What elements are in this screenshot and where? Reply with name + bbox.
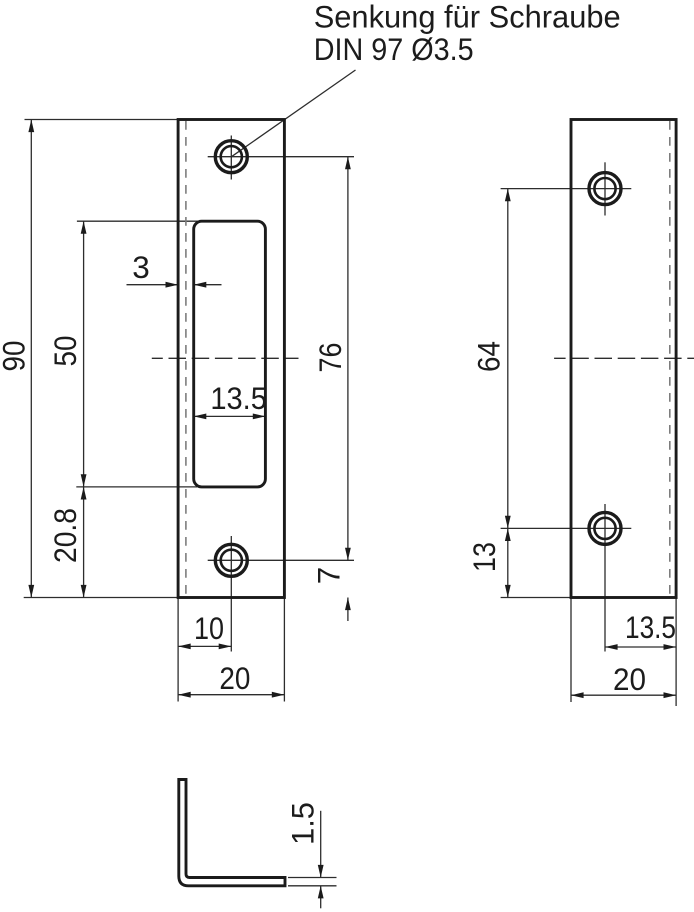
- angle profile cross-section: [179, 780, 285, 886]
- hole bottom-left outer: [215, 544, 247, 576]
- ext line angle top: [288, 877, 337, 879]
- dim line 13.5 slot: [194, 415, 266, 417]
- dim line 10: [178, 645, 231, 647]
- dim line 90: [30, 120, 32, 598]
- arrow 3 left pointing right: [166, 282, 179, 288]
- arrow 90 top up: [28, 120, 34, 133]
- hole bottom-right inner: [594, 518, 615, 539]
- arrow 1.5 top down: [318, 865, 324, 878]
- ext line slot top: [77, 220, 201, 222]
- arrow 20L left: [178, 692, 191, 698]
- leader line Senkung: [231, 70, 355, 157]
- svg-text:DIN 97 Ø3.5: DIN 97 Ø3.5: [314, 31, 474, 67]
- arrow 13 top up: [505, 528, 511, 541]
- centerline right view: [554, 357, 694, 359]
- arrow 20R left: [571, 692, 584, 698]
- svg-text:90: 90: [0, 341, 32, 372]
- dim line 20 right: [571, 694, 676, 696]
- arrow 10 right: [219, 644, 232, 650]
- dim line 20 left view: [178, 694, 284, 696]
- svg-text:Senkung für Schraube: Senkung für Schraube: [314, 0, 621, 34]
- dim 3 left tail: [127, 284, 179, 286]
- crosshair top hole horizontal / ext 76 top: [208, 156, 354, 158]
- arrow 64 top up: [505, 189, 511, 202]
- svg-text:20.8: 20.8: [47, 508, 83, 563]
- ext line slot bottom: [76, 486, 197, 488]
- hole top-left outer: [215, 141, 247, 173]
- centerline left view: [152, 357, 299, 359]
- crosshair right bottom hole vertical / ext 13.5: [604, 504, 606, 652]
- crosshair right top hole vertical: [604, 162, 606, 215]
- arrow 13.5R left: [605, 644, 618, 650]
- svg-text:13: 13: [466, 542, 502, 572]
- dim line 76: [347, 157, 349, 561]
- hidden bend line right view: [669, 121, 671, 596]
- hole top-right inner: [594, 178, 615, 199]
- ext line angle bottom: [288, 885, 337, 887]
- arrow 64 bottom down: [505, 516, 511, 529]
- dim 1.5 bottom tail: [320, 886, 322, 909]
- arrow 13 bottom down: [505, 585, 511, 598]
- svg-text:50: 50: [47, 336, 83, 367]
- crosshair top hole vertical: [230, 136, 232, 180]
- arrow 76 bottom down / 7 top: [345, 548, 351, 561]
- plate outline side view: [571, 120, 676, 598]
- svg-text:13.5: 13.5: [210, 380, 267, 416]
- THICK OUTLINES: [178, 120, 676, 886]
- arrow 3 right pointing left: [194, 282, 207, 288]
- svg-text:64: 64: [471, 341, 507, 372]
- svg-text:20: 20: [613, 661, 646, 697]
- arrow 50 bottom down: [81, 474, 87, 487]
- arrow 90 bottom down: [28, 585, 34, 598]
- arrow 20R right: [664, 692, 677, 698]
- ext line right bottom left view: [283, 598, 285, 702]
- ARROWHEADS: [28, 120, 676, 899]
- arrow 13.5 slot left: [194, 414, 207, 420]
- svg-text:76: 76: [312, 343, 348, 373]
- ext line right view bottom-right: [675, 598, 677, 707]
- arrow 7 bottom up: [345, 598, 351, 611]
- ext line left bottom: [177, 598, 179, 702]
- ext line top of 90: [25, 119, 179, 121]
- svg-text:3: 3: [132, 249, 150, 285]
- dim line 64 and 13: [507, 189, 509, 598]
- dim 3 right tail: [194, 284, 222, 286]
- hole top-right outer: [589, 173, 621, 205]
- arrow 1.5 bottom up: [318, 886, 324, 899]
- crosshair right top hole horizontal / ext 64 top: [501, 188, 632, 190]
- svg-text:7: 7: [311, 567, 347, 585]
- plate outline front view: [178, 120, 284, 598]
- svg-text:10: 10: [194, 610, 224, 646]
- crosshair bottom hole horizontal / ext 76 bottom: [208, 559, 354, 561]
- slot rounded rect: [194, 221, 266, 487]
- dim line 50 and 20.8: [83, 221, 85, 597]
- arrow 13.5R right: [664, 644, 677, 650]
- hole bottom-right outer: [589, 512, 621, 544]
- svg-text:13.5: 13.5: [625, 609, 676, 645]
- hole bottom-left inner: [221, 550, 242, 571]
- dim line 13.5 right: [605, 646, 676, 648]
- crosshair bottom hole vertical / ext dim 10: [230, 536, 232, 652]
- ext line right view bottom: [501, 597, 571, 599]
- hole top-left inner: [221, 146, 242, 167]
- dim 7 bottom tail: [347, 598, 349, 622]
- ext line bottom of 90: [24, 597, 178, 599]
- svg-text:1.5: 1.5: [285, 802, 321, 845]
- dim 1.5 top tail: [320, 811, 322, 878]
- arrow 13.5 slot right: [253, 414, 266, 420]
- arrow 50 top up: [81, 221, 87, 234]
- arrow 10 left: [178, 644, 191, 650]
- hidden bend line left view: [185, 121, 187, 596]
- arrow 20L right: [272, 692, 285, 698]
- crosshair right bottom hole horizontal / ext 64 bottom: [501, 527, 632, 529]
- svg-text:20: 20: [219, 660, 250, 696]
- arrow 20.8 top up: [81, 487, 87, 500]
- arrow 20.8 bottom down: [81, 585, 87, 598]
- arrow 76 top up: [345, 157, 351, 170]
- ext line right view bottom-left: [570, 598, 572, 703]
